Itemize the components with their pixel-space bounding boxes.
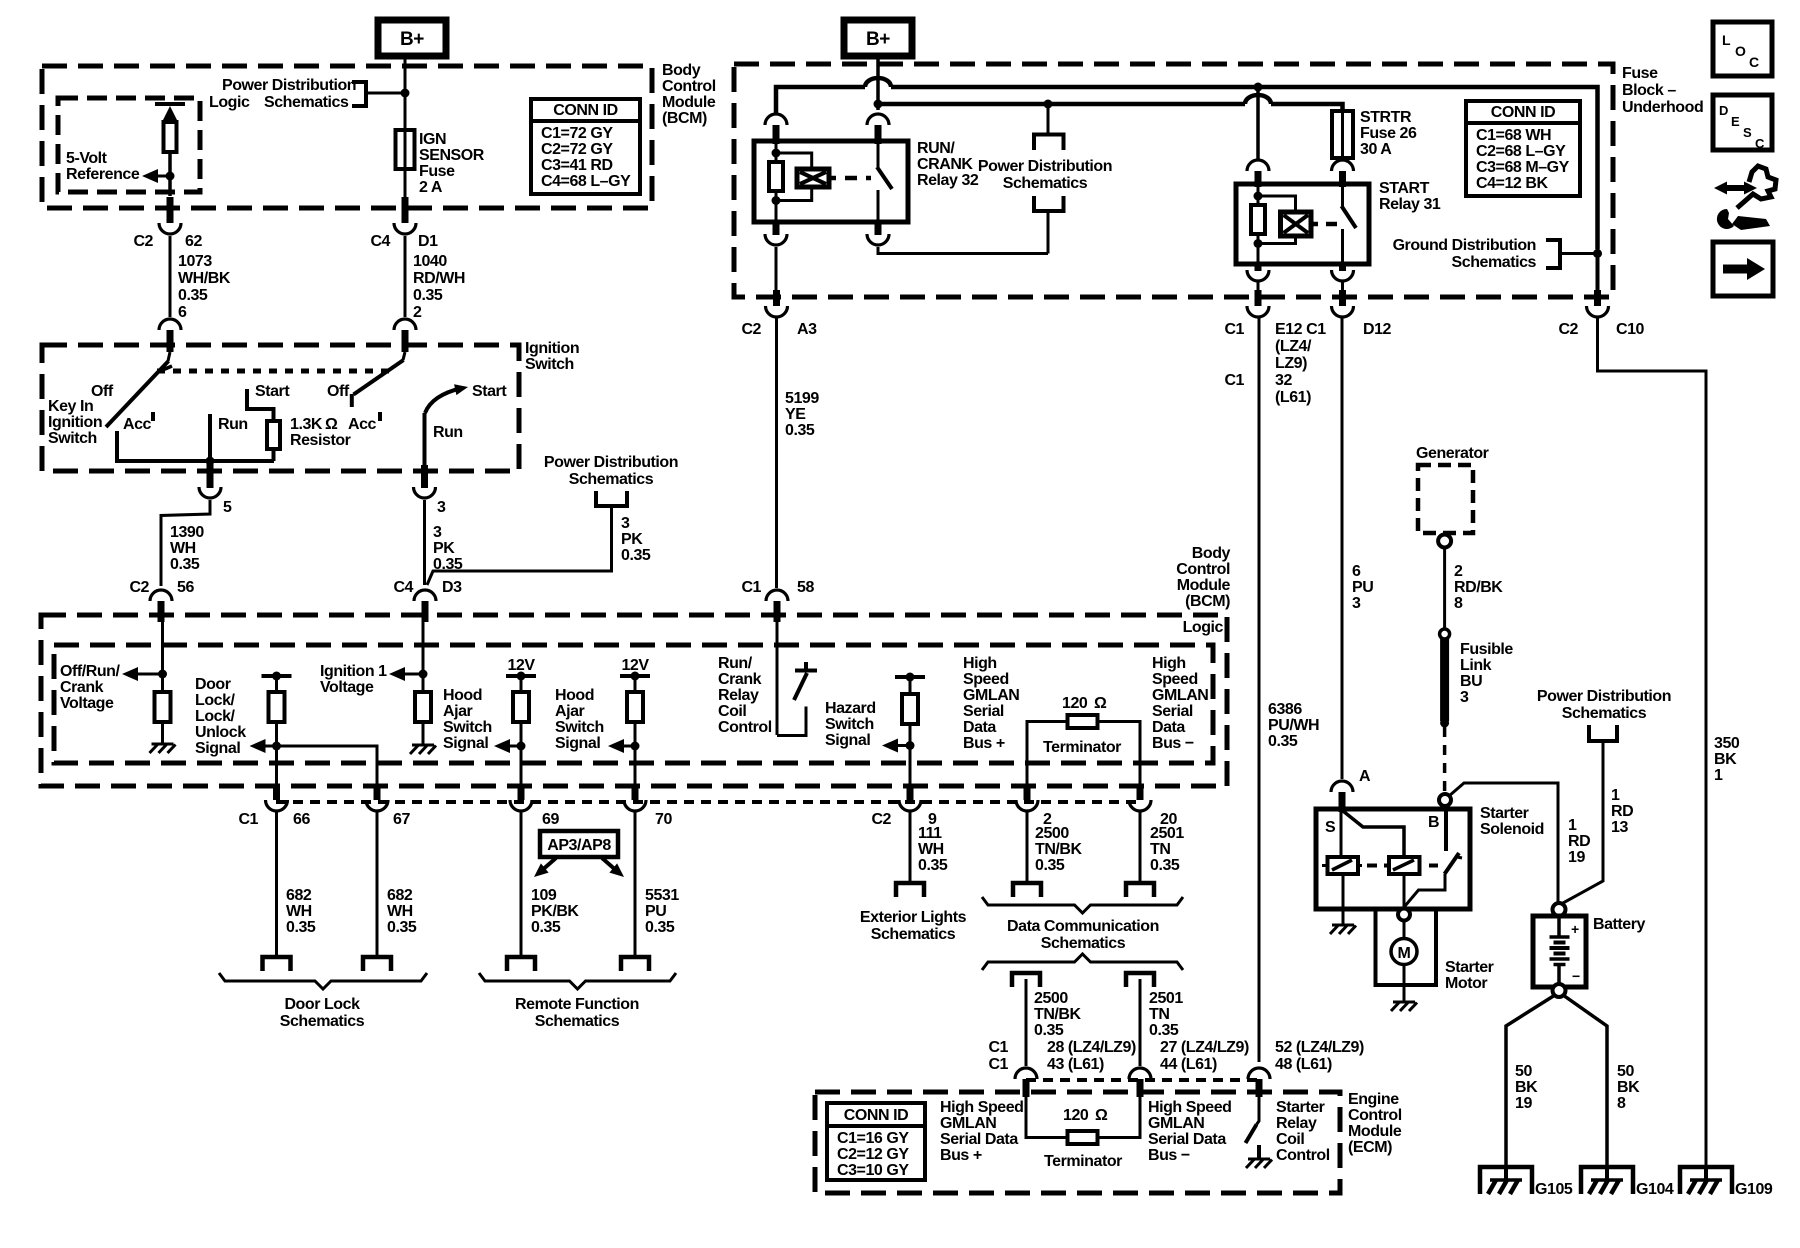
svg-text:Off/Run/: Off/Run/ xyxy=(60,663,120,680)
relay32 coil feed wire xyxy=(775,141,778,162)
svg-text:Starter: Starter xyxy=(1276,1099,1325,1116)
svg-text:Control: Control xyxy=(1176,561,1230,578)
svg-text:SENSOR: SENSOR xyxy=(419,147,485,164)
wire relay31 coil to box edge xyxy=(1257,281,1260,290)
svg-text:Ω: Ω xyxy=(1095,1107,1108,1124)
label Exterior Lights Schematics xyxy=(860,909,967,943)
svg-text:44 (L61): 44 (L61) xyxy=(1160,1056,1217,1073)
wire ECM terminator left xyxy=(1026,1097,1068,1138)
svg-text:Unlock: Unlock xyxy=(195,724,246,741)
hazard relay coil control switch xyxy=(777,662,817,736)
svg-text:GMLAN: GMLAN xyxy=(1148,1115,1204,1132)
arrow door lock signal xyxy=(250,739,282,753)
svg-text:Ajar: Ajar xyxy=(555,703,585,720)
svg-text:Switch: Switch xyxy=(555,719,604,736)
inner dotted link line ignition switch xyxy=(157,369,389,374)
brace Data Communication upper xyxy=(982,897,1183,913)
labels C2 C10 xyxy=(1558,321,1644,338)
curved Start arrow right switch xyxy=(425,384,468,413)
label Starter Solenoid xyxy=(1480,805,1544,838)
svg-text:56: 56 xyxy=(177,579,194,596)
svg-text:C1=72 GY: C1=72 GY xyxy=(541,125,613,142)
wire 2 RD/BK generator to fusible link xyxy=(1443,547,1446,630)
icon forward arrow box xyxy=(1713,242,1773,296)
label wire 50 BK 19 xyxy=(1515,1063,1538,1112)
connector at ignition switch left xyxy=(159,319,181,352)
svg-text:TN: TN xyxy=(1149,1006,1169,1023)
arrow 5-Volt Reference output xyxy=(142,169,175,183)
svg-text:Schematics: Schematics xyxy=(1003,175,1088,192)
svg-text:5199: 5199 xyxy=(785,390,819,407)
relay31 coil element xyxy=(1281,212,1312,236)
svg-text:Ignition: Ignition xyxy=(525,340,579,357)
icon LOC box xyxy=(1713,22,1772,76)
label wire 2500 TN/BK 0.35 lower xyxy=(1034,990,1082,1039)
svg-text:2 A: 2 A xyxy=(419,179,443,196)
5V reference terminator bar and up arrow xyxy=(155,104,185,122)
svg-text:E12 C1: E12 C1 xyxy=(1275,321,1326,338)
svg-text:Data Communication: Data Communication xyxy=(1007,918,1159,935)
label wire 2501 TN 0.35 lower xyxy=(1149,990,1183,1039)
svg-text:Power Distribution: Power Distribution xyxy=(544,454,678,471)
ECM starter relay coil control switch xyxy=(1246,1097,1260,1143)
svg-text:WH: WH xyxy=(286,903,312,920)
svg-text:Off: Off xyxy=(91,383,114,400)
connector starter solenoid A xyxy=(1331,768,1371,812)
label Door Lock/Lock/Unlock Signal xyxy=(195,676,246,757)
labels C2 56 xyxy=(129,579,194,596)
labels pins 52/48 xyxy=(1275,1039,1364,1073)
svg-text:Terminator: Terminator xyxy=(1044,1153,1122,1170)
power symbol B+ (underhood feed) xyxy=(844,20,912,56)
svg-text:Schematics: Schematics xyxy=(535,1013,620,1030)
CONN ID table ECM xyxy=(827,1103,925,1180)
ground G105 xyxy=(1480,1167,1532,1194)
svg-text:BK: BK xyxy=(1714,751,1737,768)
svg-text:0.35: 0.35 xyxy=(645,919,675,936)
svg-text:Resistor: Resistor xyxy=(290,432,351,449)
left switch blade (key) xyxy=(106,352,172,427)
svg-text:IGN: IGN xyxy=(419,131,446,148)
label Power Distribution Schematics (ignition feed) xyxy=(544,454,678,488)
offpage connector pin20 xyxy=(1126,883,1154,897)
label Power Distribution Logic Schematics xyxy=(209,77,356,111)
solenoid coil dashed link xyxy=(1367,864,1438,868)
svg-text:67: 67 xyxy=(393,811,410,828)
battery negative ring xyxy=(1553,984,1566,997)
svg-text:Solenoid: Solenoid xyxy=(1480,821,1544,838)
wire Run right down xyxy=(423,413,427,465)
resistor BCM ignition 1 xyxy=(415,674,431,722)
connector relay31 coil bottom xyxy=(1247,264,1269,281)
labels C1 C1 pins 28/43 xyxy=(988,1039,1136,1073)
node junction line1 E12 xyxy=(1254,83,1263,92)
labels C2 A3 xyxy=(741,321,817,338)
svg-text:Lock/: Lock/ xyxy=(195,708,236,725)
arrow AP8 right xyxy=(602,858,624,877)
wire ECM terminator right xyxy=(1098,1097,1141,1138)
wire hazard resistor to junction xyxy=(909,724,912,746)
relay31 coil branch top xyxy=(1258,196,1296,212)
svg-text:RUN/: RUN/ xyxy=(917,140,955,157)
wire 1040 RD/WH label xyxy=(413,253,465,321)
wire line2 to bracket xyxy=(1047,104,1050,134)
svg-text:2501: 2501 xyxy=(1149,990,1183,1007)
solenoid S coil ground xyxy=(1330,874,1356,934)
wire 1 RD 13 to battery xyxy=(1563,741,1603,903)
connector relay32 switch bottom xyxy=(867,222,889,245)
connector ECM pin 27/44 xyxy=(1129,1068,1151,1097)
svg-text:109: 109 xyxy=(531,887,557,904)
svg-text:1390: 1390 xyxy=(170,524,204,541)
solenoid B contact stub xyxy=(1444,810,1448,851)
svg-text:Coil: Coil xyxy=(1276,1131,1304,1148)
label wire 3 PK 0.35 left xyxy=(433,524,463,573)
svg-text:2: 2 xyxy=(413,304,422,321)
svg-text:CONN ID: CONN ID xyxy=(553,102,617,119)
svg-text:START: START xyxy=(1379,180,1430,197)
svg-text:Coil: Coil xyxy=(718,703,746,720)
relay31 coil feed wire xyxy=(1257,184,1260,205)
svg-text:(ECM): (ECM) xyxy=(1348,1139,1392,1156)
RUN/CRANK Relay 32 box xyxy=(754,141,908,222)
offpage connector ECM bus+ xyxy=(1012,973,1040,987)
svg-text:Fuse: Fuse xyxy=(1622,65,1658,82)
svg-text:D12: D12 xyxy=(1363,321,1392,338)
CONN ID table underhood xyxy=(1466,101,1580,196)
stub pin 2 xyxy=(1024,786,1031,800)
svg-text:A3: A3 xyxy=(797,321,817,338)
svg-text:Power Distribution: Power Distribution xyxy=(978,158,1112,175)
BCM logic inner dashed box xyxy=(54,645,1213,763)
svg-text:12V: 12V xyxy=(507,657,535,674)
svg-text:5: 5 xyxy=(223,499,232,516)
connector C1 pin 69 xyxy=(510,800,559,828)
svg-text:32: 32 xyxy=(1275,372,1292,389)
node relay31 coil top xyxy=(1254,192,1263,201)
5-Volt Reference dashed box xyxy=(58,98,200,192)
label Acc right with contact tick xyxy=(348,412,382,433)
svg-text:Remote Function: Remote Function xyxy=(515,996,639,1013)
svg-text:3: 3 xyxy=(1460,689,1469,706)
labels C4 D1 xyxy=(370,233,438,250)
svg-text:RD/BK: RD/BK xyxy=(1454,579,1503,596)
svg-text:Signal: Signal xyxy=(195,740,240,757)
svg-text:69: 69 xyxy=(542,811,559,828)
relay31 actuator dashed link xyxy=(1311,222,1337,227)
svg-text:Crank: Crank xyxy=(60,679,104,696)
connector D12 xyxy=(1332,306,1392,338)
wire pin 58 into BCM xyxy=(776,617,779,735)
stub pin 67 xyxy=(374,786,381,800)
svg-text:Schematics: Schematics xyxy=(1452,254,1537,271)
svg-text:Switch: Switch xyxy=(443,719,492,736)
svg-text:Schematics: Schematics xyxy=(1562,705,1647,722)
svg-text:TN/BK: TN/BK xyxy=(1035,841,1083,858)
connector ECM pin 52/48 xyxy=(1248,1068,1270,1097)
node junction line2 bracket xyxy=(1044,100,1053,109)
wire stub ignition out right xyxy=(421,465,428,488)
fusible link ring xyxy=(1440,629,1450,639)
svg-text:2500: 2500 xyxy=(1035,825,1069,842)
resistor in 5-Volt Reference xyxy=(164,122,177,152)
svg-text:B+: B+ xyxy=(866,29,890,50)
svg-text:0.35: 0.35 xyxy=(918,857,948,874)
svg-text:M: M xyxy=(1398,945,1411,962)
svg-text:L: L xyxy=(1722,32,1731,48)
svg-text:Serial Data: Serial Data xyxy=(1148,1131,1226,1148)
svg-text:RD: RD xyxy=(1568,833,1590,850)
connector C2 pin 56 xyxy=(150,590,172,622)
label Data Communication Schematics xyxy=(1007,918,1159,952)
stub pin 66 xyxy=(273,786,280,800)
connector C2 pin 62 xyxy=(159,223,181,234)
svg-text:3: 3 xyxy=(621,515,630,532)
terminator bar pin 70 xyxy=(620,672,650,681)
svg-text:Control: Control xyxy=(662,78,716,95)
svg-text:WH: WH xyxy=(918,841,944,858)
svg-text:0.35: 0.35 xyxy=(1035,857,1065,874)
node junction on IGN SENSOR feed xyxy=(401,89,410,98)
svg-text:Schematics: Schematics xyxy=(1041,935,1126,952)
connector C1 pin 70 xyxy=(624,800,672,828)
svg-text:Bus −: Bus − xyxy=(1152,735,1194,752)
svg-text:66: 66 xyxy=(293,811,310,828)
svg-text:Module: Module xyxy=(1177,577,1231,594)
svg-text:Fusible: Fusible xyxy=(1460,641,1513,658)
svg-text:43 (L61): 43 (L61) xyxy=(1047,1056,1104,1073)
connector C2 pin 9 xyxy=(899,800,921,811)
labels pins 27/44 xyxy=(1160,1039,1249,1073)
label wire 111 WH 0.35 xyxy=(918,825,948,874)
label wire 3 PK 0.35 right xyxy=(621,515,651,564)
svg-text:C1: C1 xyxy=(238,811,258,828)
svg-text:C1: C1 xyxy=(1224,372,1244,389)
svg-text:Schematics: Schematics xyxy=(871,926,956,943)
svg-text:0.35: 0.35 xyxy=(1149,1022,1179,1039)
svg-text:Control: Control xyxy=(1276,1147,1330,1164)
label Acc left with contact tick xyxy=(123,412,155,433)
svg-text:C10: C10 xyxy=(1616,321,1645,338)
Start contact and lead to resistor xyxy=(247,389,274,421)
label wire 6 PU 3 xyxy=(1352,563,1373,612)
svg-text:50: 50 xyxy=(1515,1063,1532,1080)
label Ignition Switch xyxy=(525,340,579,373)
solenoid B ring xyxy=(1439,794,1451,806)
node junction B+ line2 xyxy=(874,100,883,109)
connector relay32 coil top xyxy=(765,114,787,144)
svg-text:Fuse: Fuse xyxy=(419,163,455,180)
svg-text:Off: Off xyxy=(327,383,350,400)
connector start relay coil top xyxy=(1247,160,1269,187)
svg-text:48 (L61): 48 (L61) xyxy=(1275,1056,1332,1073)
stub pin 70 xyxy=(632,786,639,800)
wire B+ to IGN SENSOR fuse xyxy=(404,56,407,130)
wire C4-D1 down to ignition switch xyxy=(404,236,407,317)
connector at ignition switch right xyxy=(394,319,416,352)
bracket power distribution bottom xyxy=(1034,196,1064,211)
node relay32 coil top xyxy=(772,149,781,158)
svg-text:C1: C1 xyxy=(1224,321,1244,338)
bus line 2 segment a xyxy=(878,102,1245,107)
label wire 2 RD/BK 8 xyxy=(1454,563,1503,612)
label Body Control Module (BCM) logic xyxy=(1176,545,1230,610)
svg-text:(LZ4/: (LZ4/ xyxy=(1275,338,1312,355)
resistor relay32 xyxy=(769,162,783,191)
offpage connector pin66 xyxy=(263,957,291,971)
starter motor ground xyxy=(1391,965,1417,1012)
svg-text:CONN ID: CONN ID xyxy=(1491,104,1555,121)
svg-text:C1: C1 xyxy=(741,579,761,596)
hop line2 over E12 wire xyxy=(1245,95,1271,104)
svg-text:AP3/AP8: AP3/AP8 xyxy=(547,837,611,854)
wire 1390 WH jog xyxy=(161,500,210,586)
svg-text:RD: RD xyxy=(1611,803,1633,820)
Battery box xyxy=(1533,916,1586,987)
wire resistor69 to junction xyxy=(520,722,523,746)
connector ignition pin 3 xyxy=(414,487,447,516)
svg-text:Exterior Lights: Exterior Lights xyxy=(860,909,967,926)
wire B+ down to relay 32 switch xyxy=(876,56,880,110)
svg-text:Module: Module xyxy=(1348,1123,1402,1140)
svg-text:120: 120 xyxy=(1063,1107,1089,1124)
brace Door Lock Schematics xyxy=(219,973,427,989)
svg-text:70: 70 xyxy=(655,811,672,828)
svg-text:0.35: 0.35 xyxy=(1150,857,1180,874)
connector relay31 switch bottom xyxy=(1332,264,1354,281)
wire 2500 TN/BK lower xyxy=(1025,979,1028,1066)
wire bracket to relay32 output xyxy=(1047,211,1050,254)
svg-text:C2=12 GY: C2=12 GY xyxy=(837,1146,909,1163)
svg-text:PU/WH: PU/WH xyxy=(1268,717,1319,734)
label wire 1 RD 19 xyxy=(1568,817,1590,866)
svg-text:C: C xyxy=(1749,54,1759,70)
svg-text:Ignition: Ignition xyxy=(48,414,102,431)
svg-text:Switch: Switch xyxy=(825,716,874,733)
svg-text:High: High xyxy=(1152,655,1186,672)
svg-text:CONN ID: CONN ID xyxy=(844,1107,908,1124)
terminator resistor ECM xyxy=(1068,1131,1098,1144)
dashed wire fusible link to B terminal xyxy=(1443,727,1447,791)
svg-text:Bus −: Bus − xyxy=(1148,1147,1190,1164)
connector C4 pin D3 xyxy=(414,590,436,622)
ground BCM ignition 1 xyxy=(410,722,436,754)
connector relay32 coil bottom xyxy=(765,222,787,245)
svg-text:Body: Body xyxy=(662,62,701,79)
svg-text:Starter: Starter xyxy=(1480,805,1529,822)
svg-text:28 (LZ4/LZ9): 28 (LZ4/LZ9) xyxy=(1047,1039,1136,1056)
battery positive ring xyxy=(1553,903,1566,916)
offpage connector ECM bus- xyxy=(1126,973,1154,987)
power symbol B+ (BCM feed) xyxy=(378,20,446,56)
svg-text:C3=10 GY: C3=10 GY xyxy=(837,1162,909,1179)
resistor BCM pin 66 xyxy=(269,676,285,722)
svg-text:8: 8 xyxy=(1454,595,1463,612)
wire 6 PU D12 to starter solenoid xyxy=(1341,317,1344,779)
svg-text:62: 62 xyxy=(185,233,202,250)
svg-text:Signal: Signal xyxy=(555,735,600,752)
svg-text:RD/WH: RD/WH xyxy=(413,270,465,287)
connector C1 pin 67 xyxy=(366,800,388,811)
svg-text:Relay: Relay xyxy=(718,687,759,704)
label Starter Motor xyxy=(1445,959,1494,992)
solenoid switch blade xyxy=(1405,853,1462,906)
offpage connector pin69 xyxy=(507,957,535,971)
svg-text:GMLAN: GMLAN xyxy=(940,1115,996,1132)
label Fuse Block - Underhood xyxy=(1622,65,1703,116)
svg-text:Relay 31: Relay 31 xyxy=(1379,196,1441,213)
label wire 2501 TN 0.35 upper xyxy=(1150,825,1184,874)
svg-text:Link: Link xyxy=(1460,657,1492,674)
connector start relay switch top xyxy=(1332,160,1354,187)
fuse IGN SENSOR 2A xyxy=(404,130,407,169)
offpage connector pin9 xyxy=(896,883,924,897)
wire 6386 PU/WH E12 to ECM xyxy=(1258,317,1261,1062)
svg-text:19: 19 xyxy=(1515,1095,1532,1112)
svg-text:C2: C2 xyxy=(871,811,891,828)
svg-text:Speed: Speed xyxy=(1152,671,1198,688)
START Relay 31 box xyxy=(1236,184,1369,264)
wire 2500 TN/BK upper xyxy=(1026,812,1029,883)
svg-text:G104: G104 xyxy=(1636,1181,1674,1198)
svg-text:Door: Door xyxy=(195,676,231,693)
label Hood Ajar Switch Signal 2 xyxy=(555,687,604,752)
svg-text:Logic: Logic xyxy=(1183,619,1224,636)
svg-text:0.35: 0.35 xyxy=(531,919,561,936)
label Power Distribution Schematics battery xyxy=(1537,688,1671,722)
svg-text:(L61): (L61) xyxy=(1275,389,1311,406)
svg-text:3: 3 xyxy=(1352,595,1361,612)
svg-text:Power Distribution: Power Distribution xyxy=(222,77,356,94)
icon wrench with arrows xyxy=(1714,166,1776,230)
svg-text:YE: YE xyxy=(785,406,806,423)
node relay32 coil bottom xyxy=(772,196,781,205)
connector C2 pin A3 xyxy=(766,306,788,317)
arrow ignition 1 voltage xyxy=(389,667,428,681)
BCM dashed box (Body Control Module) xyxy=(42,66,652,208)
svg-text:Hood: Hood xyxy=(443,687,482,704)
svg-text:STRTR: STRTR xyxy=(1360,109,1412,126)
ground G104 xyxy=(1581,1167,1633,1194)
node junction Run/Acc output xyxy=(206,457,215,466)
svg-text:0.35: 0.35 xyxy=(286,919,316,936)
label wire 1 RD 13 xyxy=(1611,787,1633,836)
svg-text:PU: PU xyxy=(645,903,666,920)
svg-text:C1=68 WH: C1=68 WH xyxy=(1476,127,1551,144)
svg-text:C4: C4 xyxy=(393,579,413,596)
label Hood Ajar Switch Signal 1 xyxy=(443,687,492,752)
svg-text:Relay: Relay xyxy=(1276,1115,1317,1132)
svg-text:Block –: Block – xyxy=(1622,82,1676,99)
svg-text:C4: C4 xyxy=(370,233,390,250)
resistor BCM pin 69 xyxy=(513,676,529,722)
svg-text:Signal: Signal xyxy=(443,735,488,752)
svg-text:Serial: Serial xyxy=(1152,703,1193,720)
label Key In Ignition Switch xyxy=(48,398,102,447)
bracket power distribution battery xyxy=(1589,725,1617,741)
stub D12 xyxy=(1339,290,1346,306)
starter motor M circle xyxy=(1391,920,1417,965)
label Body Control Module (BCM) xyxy=(662,62,716,127)
svg-text:C2: C2 xyxy=(133,233,153,250)
label Power Distribution Schematics underhood xyxy=(978,158,1112,192)
svg-text:Reference: Reference xyxy=(66,166,140,183)
svg-text:Voltage: Voltage xyxy=(60,695,114,712)
connector C4 pin D1 xyxy=(394,223,416,234)
wire hazard down xyxy=(909,746,912,791)
svg-text:50: 50 xyxy=(1617,1063,1634,1080)
svg-text:S: S xyxy=(1743,125,1752,140)
